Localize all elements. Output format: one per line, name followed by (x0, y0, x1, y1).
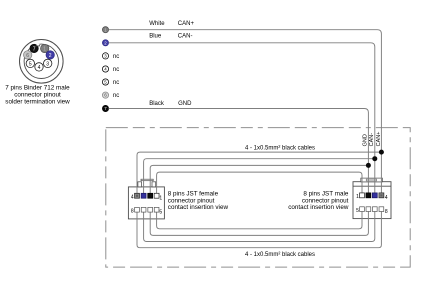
svg-text:1: 1 (159, 195, 162, 201)
svg-text:5: 5 (356, 208, 359, 214)
right JST pin 3 contact (blue) (372, 193, 377, 198)
left JST pin 5 contact (154, 207, 159, 212)
svg-text:1: 1 (43, 46, 46, 52)
pin list node 7 (102, 105, 108, 111)
svg-text:nc: nc (113, 80, 119, 86)
svg-text:CAN+: CAN+ (376, 132, 382, 147)
J1 pin 4 (35, 63, 43, 71)
wire 2 labels (149, 33, 192, 39)
svg-text:solder termination view: solder termination view (5, 99, 70, 106)
svg-text:2: 2 (49, 53, 52, 59)
svg-text:1: 1 (356, 194, 359, 200)
J1 pin 6 (light grey, nc) (24, 51, 32, 59)
junction dot CAN- (372, 156, 377, 161)
pin list node 5 (nc) (102, 79, 119, 86)
svg-text:CAN+: CAN+ (178, 21, 195, 27)
svg-text:4 - 1x0.5mm² black cables: 4 - 1x0.5mm² black cables (245, 145, 315, 151)
svg-text:4 - 1x0.5mm² black cables: 4 - 1x0.5mm² black cables (245, 252, 315, 258)
J1 insert inner circle (24, 44, 58, 78)
right JST pin 8 contact (379, 207, 384, 212)
svg-text:contact insertion view: contact insertion view (288, 204, 349, 211)
dashed cable-assembly enclosure box (106, 128, 410, 268)
right JST pin 7 contact (372, 207, 377, 212)
right JST mating key middle slot (366, 179, 376, 181)
svg-text:5: 5 (159, 209, 162, 215)
wire: top loop left pin1 to right pin1 (157, 172, 362, 193)
svg-text:connector pinout: connector pinout (14, 92, 61, 99)
svg-text:4: 4 (38, 65, 41, 71)
svg-text:3: 3 (46, 61, 49, 67)
right JST pin 5 contact (360, 207, 365, 212)
svg-text:Black: Black (149, 101, 165, 107)
svg-text:6: 6 (104, 93, 107, 98)
wire: Binder pin1 White CAN+ to right JST pin4 (109, 30, 382, 193)
svg-text:8: 8 (385, 209, 388, 215)
wire: bottom loop left pin8 to right pin8 (137, 212, 381, 248)
J1 insert keying notch (36, 44, 40, 46)
right JST body collar line (353, 185, 391, 187)
J1 pin 7 (black) (30, 44, 38, 52)
left JST caption (168, 191, 229, 212)
left JST female connector body (128, 187, 164, 219)
left JST latch bar (141, 179, 153, 181)
right JST mating key bar (361, 178, 383, 182)
wire: Binder pin7 Black GND to right JST pin2 (109, 109, 369, 193)
J1 pin 1 (grey / white wire) (41, 44, 49, 52)
right JST pin labels (356, 194, 388, 215)
wire 1 labels (149, 21, 194, 27)
svg-text:nc: nc (113, 67, 119, 73)
left JST latch tab left (138, 182, 142, 187)
svg-text:GND: GND (363, 134, 369, 146)
right JST pin 4 contact (grey) (379, 193, 384, 198)
svg-text:4: 4 (131, 195, 134, 201)
right JST male connector body (353, 182, 391, 219)
left JST pin 2 contact (black) (148, 193, 153, 198)
svg-text:Blue: Blue (149, 33, 162, 39)
left JST latch tab right (152, 182, 156, 187)
wire: bottom loop left pin6 to right pin6 (150, 212, 368, 236)
wire: top loop left pin2 to GND junction (150, 165, 368, 193)
left JST pin 7 contact (141, 207, 146, 212)
J1 caption (5, 85, 70, 106)
junction dot GND (366, 163, 371, 168)
pin list node 6 (nc) (102, 92, 119, 99)
wire 7 labels (149, 101, 192, 107)
pin list node 1 (102, 27, 108, 33)
right JST caption (288, 191, 349, 212)
left JST pin 3 contact (blue) (141, 193, 146, 198)
left JST pin labels (131, 195, 163, 216)
pin list node 4 (nc) (102, 66, 119, 73)
pin list node 2 (102, 40, 108, 46)
svg-text:contact insertion view: contact insertion view (168, 204, 229, 211)
svg-text:CAN-: CAN- (178, 33, 193, 39)
wire: Binder pin2 Blue CAN- to right JST pin3 (109, 43, 375, 193)
svg-text:CAN-: CAN- (369, 133, 375, 147)
right JST pin 2 contact (black) (366, 193, 371, 198)
pin list node 3 (nc) (102, 53, 119, 60)
svg-text:7: 7 (33, 46, 36, 52)
svg-text:4: 4 (385, 195, 388, 201)
wire: bottom loop left pin5 to right pin5 (157, 212, 362, 229)
J1 pin 2 (blue) (46, 51, 54, 59)
wire: bottom loop left pin7 to right pin7 (144, 212, 375, 242)
right JST pin 1 contact (open) (360, 193, 365, 198)
wire: top loop left pin3 to CAN- junction (144, 159, 375, 194)
svg-text:5: 5 (29, 61, 32, 67)
J1 pin 3 (44, 59, 52, 67)
svg-text:6: 6 (26, 53, 29, 59)
wire: top loop left pin4 to CAN+ junction (137, 152, 381, 193)
left JST pin 6 contact (148, 207, 153, 212)
svg-text:GND: GND (178, 101, 192, 107)
svg-text:White: White (149, 21, 165, 27)
svg-text:nc: nc (113, 93, 119, 99)
junction dot CAN+ (379, 150, 384, 155)
left JST pin 4 contact (grey) (135, 193, 140, 198)
left JST pin 8 contact (135, 207, 140, 212)
right JST pin 6 contact (366, 207, 371, 212)
svg-text:8: 8 (131, 209, 134, 215)
J1 pin 5 (26, 59, 34, 67)
left JST pin 1 contact (open) (154, 193, 159, 198)
svg-text:nc: nc (113, 54, 119, 60)
connector J1 body: 7 pins Binder 712 male, outer shell circle (20, 40, 64, 84)
